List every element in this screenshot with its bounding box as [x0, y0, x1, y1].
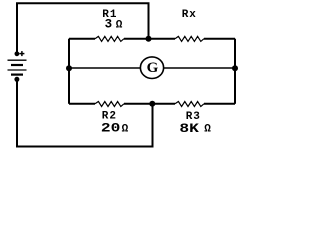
svg-text:R2: R2 [102, 111, 117, 123]
svg-text:Ω: Ω [116, 20, 123, 32]
svg-text:R3: R3 [186, 111, 201, 123]
svg-text:20: 20 [101, 122, 120, 136]
svg-text:Rx: Rx [182, 9, 197, 21]
svg-text:Ω: Ω [204, 124, 211, 136]
svg-text:Ω: Ω [122, 124, 129, 136]
svg-text:3: 3 [105, 18, 113, 32]
svg-text:G: G [147, 60, 159, 76]
svg-text:8K: 8K [179, 122, 199, 136]
